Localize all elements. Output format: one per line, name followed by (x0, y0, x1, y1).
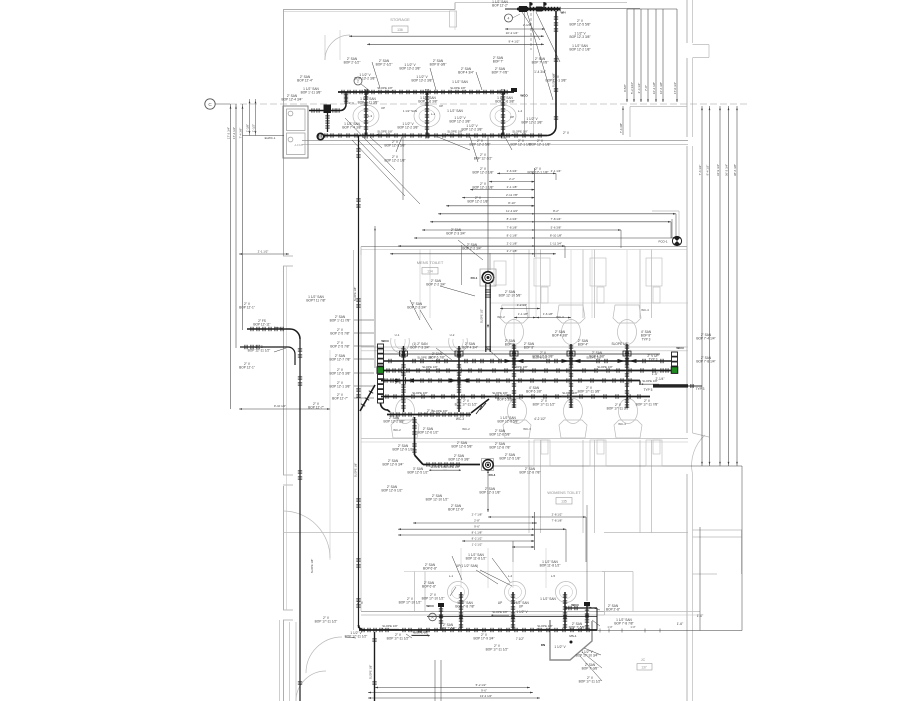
svg-text:TYP 5: TYP 5 (644, 388, 653, 392)
svg-text:1 1/2" SANBOP 1’-11 3/8": 1 1/2" SANBOP 1’-11 3/8" (358, 97, 379, 105)
svg-text:JC: JC (641, 658, 646, 662)
svg-text:STORAGE: STORAGE (390, 17, 410, 22)
svg-text:(1) 2" SANBOP 7’-3 3/4": (1) 2" SANBOP 7’-3 3/4" (410, 342, 429, 350)
svg-text:2" SANBOP 8": 2" SANBOP 8" (524, 342, 535, 350)
svg-text:1 1/2" V: 1 1/2" V (344, 101, 354, 105)
svg-text:8’-10 1/8": 8’-10 1/8" (550, 233, 562, 237)
svg-text:UP: UP (381, 106, 385, 110)
svg-text:L-4: L-4 (508, 574, 513, 578)
svg-text:WC-2: WC-2 (393, 428, 401, 432)
svg-text:SLOPE 1/8": SLOPE 1/8" (597, 365, 613, 369)
svg-text:7’-6 3/8": 7’-6 3/8" (619, 123, 623, 133)
svg-text:SLOPE 1/8": SLOPE 1/8" (512, 365, 528, 369)
svg-text:7’-8 1/8": 7’-8 1/8" (552, 518, 563, 522)
svg-text:1 1/2" V: 1 1/2" V (516, 610, 528, 614)
svg-text:8’-10": 8’-10" (508, 201, 515, 205)
svg-text:9’-6": 9’-6" (481, 689, 487, 693)
svg-text:SLOPE 1/8": SLOPE 1/8" (354, 463, 358, 477)
svg-text:11’-4 3/4": 11’-4 3/4" (506, 209, 518, 213)
svg-text:4’-2 1/2": 4’-2 1/2" (534, 417, 546, 421)
svg-text:1'-2 3/4": 1'-2 3/4" (517, 303, 527, 307)
svg-text:2" V: 2" V (395, 381, 402, 385)
svg-text:2’-1 1/8": 2’-1 1/8" (507, 185, 518, 189)
svg-text:2" SANBOP 2’-8": 2" SANBOP 2’-8" (606, 604, 620, 612)
svg-text:9’-10 1/2": 9’-10 1/2" (274, 404, 286, 408)
svg-text:SLOPE 1/8": SLOPE 1/8" (537, 624, 553, 628)
svg-text:1 1/2" SANBOP 12’-2": 1 1/2" SANBOP 12’-2" (492, 0, 508, 8)
svg-text:9’-6": 9’-6" (474, 525, 480, 529)
svg-text:SLOPE 1/8": SLOPE 1/8" (413, 631, 429, 635)
svg-text:2’-8": 2’-8" (474, 518, 480, 522)
svg-text:WH: WH (561, 11, 566, 15)
svg-text:U-1: U-1 (395, 333, 400, 337)
svg-text:7’-8 1/4": 7’-8 1/4" (551, 217, 562, 221)
svg-text:FD-4: FD-4 (489, 473, 496, 477)
svg-text:9’-4 1/2": 9’-4 1/2" (705, 165, 709, 176)
svg-text:2’-6 3/4": 2’-6 3/4" (507, 169, 518, 173)
svg-text:1'-0": 1'-0" (607, 625, 612, 629)
svg-text:1 1/2" SAN: 1 1/2" SAN (452, 80, 468, 84)
svg-text:9’-4 1/2": 9’-4 1/2" (508, 40, 519, 44)
svg-text:2’-7 1/8": 2’-7 1/8" (507, 249, 518, 253)
svg-text:8’-2": 8’-2" (553, 209, 559, 213)
svg-text:1 1/2" V: 1 1/2" V (554, 645, 566, 649)
svg-text:WCO: WCO (571, 603, 579, 607)
svg-text:MS-1: MS-1 (569, 634, 576, 638)
svg-text:SLOPE 1/8": SLOPE 1/8" (512, 130, 528, 134)
svg-text:SLOPE 1/8": SLOPE 1/8" (444, 465, 460, 469)
svg-text:1 1/2" SANBOP 11’-8 1/2": 1 1/2" SANBOP 11’-8 1/2" (466, 553, 487, 561)
svg-text:1'-6 1/8": 1'-6 1/8" (543, 312, 553, 316)
svg-text:1’-0": 1’-0" (697, 614, 703, 618)
svg-text:17’-0 3/4": 17’-0 3/4" (673, 82, 677, 94)
svg-text:SLOPE 1/8": SLOPE 1/8" (353, 287, 357, 301)
svg-text:1’-2 1/2": 1’-2 1/2" (472, 542, 483, 546)
svg-text:1 1/2" SANBOP 7’-6 3/8": 1 1/2" SANBOP 7’-6 3/8" (495, 96, 514, 104)
svg-text:8-5/8": 8-5/8" (623, 84, 627, 92)
svg-text:L-3: L-3 (368, 114, 373, 118)
svg-text:2’-1/2": 2’-1/2" (523, 23, 531, 27)
svg-text:WCO: WCO (676, 346, 684, 350)
svg-text:1 1/2" SANBOP 12’-2 1/8": 1 1/2" SANBOP 12’-2 1/8" (569, 44, 590, 52)
svg-text:2" V: 2" V (563, 131, 570, 135)
svg-text:UP: UP (510, 115, 514, 119)
svg-text:135: 135 (561, 500, 567, 504)
svg-text:8’-1 1/8": 8’-1 1/8" (472, 530, 483, 534)
svg-text:SLOPE 1/2": SLOPE 1/2" (480, 309, 484, 323)
svg-text:1 1/2" SAN: 1 1/2" SAN (540, 597, 556, 601)
svg-text:2’-1 1/4": 2’-1 1/4" (551, 169, 562, 173)
svg-text:DN: DN (541, 643, 545, 647)
svg-text:4: 4 (508, 17, 510, 21)
svg-text:WC-3: WC-3 (456, 417, 464, 421)
svg-text:1 1/2" SAN: 1 1/2" SAN (447, 109, 463, 113)
svg-text:L-1: L-1 (449, 574, 454, 578)
svg-text:13’-2 1/4": 13’-2 1/4" (480, 694, 492, 698)
svg-text:2" SANBOP 4": 2" SANBOP 4" (578, 339, 589, 347)
svg-text:1’-4 3/4": 1’-4 3/4" (534, 70, 546, 74)
svg-text:7’-4 3/8": 7’-4 3/8" (238, 128, 242, 139)
svg-text:SLOPE 1/8": SLOPE 1/8" (382, 624, 398, 628)
svg-text:34’-9 3/4": 34’-9 3/4" (716, 164, 720, 176)
svg-text:1 1/2" SANBOPT 11 7/8": 1 1/2" SANBOPT 11 7/8" (306, 295, 325, 303)
svg-text:1'-1 1/8": 1'-1 1/8" (518, 312, 528, 316)
svg-text:137: 137 (641, 666, 647, 670)
svg-text:1 1/2" SANBOP 7’-6 3/8": 1 1/2" SANBOP 7’-6 3/8" (418, 96, 437, 104)
svg-text:10’-2 1/4": 10’-2 1/4" (506, 31, 519, 35)
svg-text:WCO: WCO (381, 339, 389, 343)
svg-text:5’-2 1/2": 5’-2 1/2" (476, 683, 487, 687)
svg-text:1’-6": 1’-6" (652, 372, 658, 376)
svg-text:2’-1 1/2": 2’-1 1/2" (258, 250, 269, 254)
svg-text:WOMENS TOILET: WOMENS TOILET (547, 490, 581, 495)
svg-text:FD-1: FD-1 (471, 276, 478, 280)
svg-text:SLOPE 1/8": SLOPE 1/8" (447, 130, 463, 134)
svg-text:7 1/2": 7 1/2" (516, 637, 524, 641)
svg-text:WC-4: WC-4 (618, 422, 626, 426)
svg-text:SLOPE 1/8": SLOPE 1/8" (369, 665, 373, 679)
svg-text:WCO: WCO (520, 94, 528, 98)
svg-text:36’-2 3/4": 36’-2 3/4" (724, 164, 728, 176)
svg-text:17’-4 1/2": 17’-4 1/2" (232, 127, 236, 139)
svg-text:U-2: U-2 (450, 333, 455, 337)
svg-text:1 1/2" SANBOP 1’-11 3/8": 1 1/2" SANBOP 1’-11 3/8" (301, 87, 322, 95)
svg-text:2" SANBOP 6’-8": 2" SANBOP 6’-8" (422, 581, 436, 589)
svg-text:WCO: WCO (426, 604, 434, 608)
svg-text:UP(1 1/2" SAN): UP(1 1/2" SAN) (456, 564, 478, 568)
svg-text:2" SANBOP 8": 2" SANBOP 8" (505, 339, 516, 347)
svg-text:1’-1/2": 1’-1/2" (251, 124, 255, 132)
svg-text:SLOPE 1/8": SLOPE 1/8" (492, 610, 508, 614)
svg-text:2’-11 7/8": 2’-11 7/8" (506, 193, 518, 197)
svg-text:7’-6 1/2": 7’-6 1/2" (698, 165, 702, 176)
svg-text:WC-2: WC-2 (497, 315, 505, 319)
svg-text:TYP 3: TYP 3 (696, 387, 705, 391)
svg-text:5’-6 3/8": 5’-6 3/8" (551, 225, 562, 229)
svg-text:136: 136 (397, 28, 403, 32)
svg-text:2’-2 1/8": 2’-2 1/8" (507, 241, 518, 245)
svg-text:2" V UPTYP 3: 2" V UPTYP 3 (647, 354, 658, 362)
svg-text:WC-2: WC-2 (462, 427, 470, 431)
svg-text:2" SANBOP 7": 2" SANBOP 7" (493, 56, 504, 64)
svg-text:8’-4 3/4": 8’-4 3/4" (507, 217, 518, 221)
svg-text:5’-2 3/16": 5’-2 3/16" (630, 82, 634, 94)
svg-text:8’-2 1/8": 8’-2 1/8" (507, 233, 518, 237)
svg-text:2" SANBOP 6’-8": 2" SANBOP 6’-8" (423, 563, 437, 571)
svg-text:1 1/2" SAN: 1 1/2" SAN (403, 109, 417, 113)
svg-text:FCO-1: FCO-1 (659, 240, 668, 244)
svg-text:SLOPE 1/8": SLOPE 1/8" (422, 365, 438, 369)
svg-text:16’-4 1/8": 16’-4 1/8" (652, 82, 656, 94)
svg-text:SLOPE 1/8": SLOPE 1/8" (377, 130, 393, 134)
svg-text:SLOPE 1/8": SLOPE 1/8" (310, 559, 314, 573)
svg-text:SLOPE 1/8": SLOPE 1/8" (562, 391, 578, 395)
svg-text:1’-6": 1’-6" (677, 622, 683, 626)
svg-text:A-9 1/8": A-9 1/8" (295, 144, 304, 147)
svg-text:L-1: L-1 (431, 112, 436, 116)
svg-text:UP: UP (439, 104, 443, 108)
svg-text:2’-7 1/8": 2’-7 1/8" (472, 512, 483, 516)
svg-text:2’-4 1/4": 2’-4 1/4" (637, 83, 641, 94)
svg-text:L-4: L-4 (518, 109, 523, 113)
svg-text:ELWC-1: ELWC-1 (265, 136, 276, 140)
svg-text:7’-8": 7’-8" (644, 85, 648, 91)
svg-text:8’-2 1/2": 8’-2 1/2" (472, 536, 483, 540)
svg-text:1’-1/8": 1’-1/8" (245, 124, 249, 132)
svg-text:MENS TOILET: MENS TOILET (417, 260, 444, 265)
svg-text:2’-8 1/2": 2’-8 1/2" (552, 512, 563, 516)
svg-text:1 1/2" SANBOP 7’-8 7/8": 1 1/2" SANBOP 7’-8 7/8" (614, 618, 633, 626)
svg-text:7’-8 1/8": 7’-8 1/8" (507, 225, 518, 229)
svg-text:7 1/2": 7 1/2" (550, 628, 557, 632)
svg-text:WC-3: WC-3 (523, 427, 531, 431)
svg-text:2’-2": 2’-2" (509, 177, 515, 181)
svg-text:SLOPE 1/8": SLOPE 1/8" (412, 391, 428, 395)
svg-text:17’-2 3/4": 17’-2 3/4" (226, 127, 230, 139)
svg-text:UP: UP (498, 601, 502, 605)
svg-text:2’-1/4": 2’-1/4" (655, 377, 664, 381)
svg-text:SLOPE 1/8": SLOPE 1/8" (450, 86, 466, 90)
svg-text:1 1/2" SANBOP 7’-4 3/8": 1 1/2" SANBOP 7’-4 3/8" (342, 122, 361, 130)
svg-text:4" SANBOP 8"TYP 3: 4" SANBOP 8"TYP 3 (641, 330, 652, 341)
svg-text:1’-11 3/4": 1’-11 3/4" (550, 241, 562, 245)
svg-text:1 1/2" SANBOP 11’-8 1/2": 1 1/2" SANBOP 11’-8 1/2" (540, 560, 561, 568)
svg-text:SLOPE 1/8": SLOPE 1/8" (611, 342, 628, 346)
svg-text:1 1/2" SANBOP 12’-6 5/8": 1 1/2" SANBOP 12’-6 5/8" (497, 416, 518, 424)
svg-text:L-5: L-5 (551, 574, 556, 578)
svg-text:2" V: 2" V (357, 601, 364, 605)
svg-text:WC-3: WC-3 (556, 315, 564, 319)
svg-text:WC-4: WC-4 (641, 308, 649, 312)
svg-text:134: 134 (427, 270, 433, 274)
svg-text:16’-6 3/8": 16’-6 3/8" (659, 82, 663, 94)
svg-text:1 1/2" SANBOP 7’-8 7/8": 1 1/2" SANBOP 7’-8 7/8" (455, 601, 474, 609)
svg-text:38’-6 3/8": 38’-6 3/8" (733, 164, 737, 176)
